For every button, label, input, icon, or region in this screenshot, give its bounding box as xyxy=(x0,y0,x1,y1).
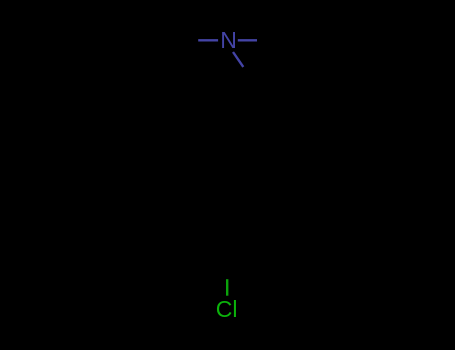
bond N-CH3 left (blue half) xyxy=(198,39,218,41)
svg-text:Cl: Cl xyxy=(216,296,238,322)
bond N-CH3 right (blue half) xyxy=(238,39,257,41)
bond C-Cl (green half) xyxy=(226,279,228,296)
svg-text:N: N xyxy=(220,27,237,53)
bond N-C chain diagonal (blue half) xyxy=(233,52,243,67)
